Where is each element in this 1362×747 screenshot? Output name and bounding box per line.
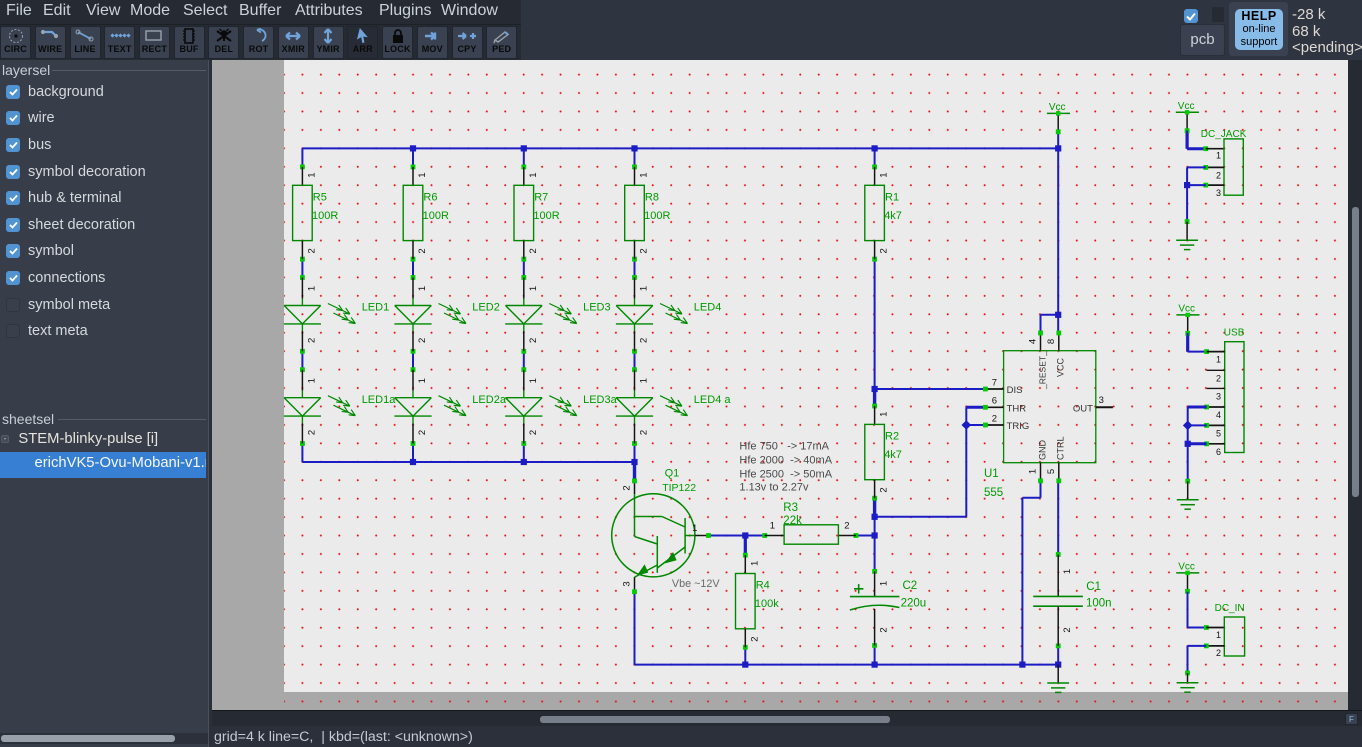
svg-text:3: 3	[621, 581, 632, 586]
svg-text:1: 1	[528, 378, 539, 383]
svg-text:2: 2	[992, 413, 997, 424]
svg-text:R2: R2	[885, 430, 899, 442]
svg-text:DIS: DIS	[1007, 385, 1023, 396]
svg-text:2: 2	[1216, 373, 1221, 383]
svg-text:LED2: LED2	[472, 302, 500, 314]
svg-text:4: 4	[1216, 410, 1221, 420]
svg-text:TRIG: TRIG	[1007, 421, 1030, 432]
svg-text:Q1: Q1	[665, 467, 680, 479]
svg-text:2: 2	[417, 248, 428, 253]
svg-text:1: 1	[879, 581, 890, 586]
svg-text:1: 1	[1216, 151, 1221, 161]
svg-text:Hfe 2000 -> 40mA: Hfe 2000 -> 40mA	[739, 454, 832, 466]
svg-text:4k7: 4k7	[884, 210, 902, 222]
svg-text:4k7: 4k7	[884, 449, 902, 461]
svg-text:7: 7	[992, 377, 997, 388]
svg-text:555: 555	[984, 487, 1003, 499]
svg-text:C2: C2	[903, 580, 918, 592]
svg-text:100n: 100n	[1086, 597, 1112, 609]
svg-text:1: 1	[1216, 355, 1221, 365]
svg-text:Hfe 2500 -> 50mA: Hfe 2500 -> 50mA	[739, 468, 832, 480]
svg-text:2: 2	[528, 430, 539, 435]
svg-text:2: 2	[1062, 627, 1073, 632]
svg-text:100R: 100R	[423, 210, 449, 222]
svg-text:R5: R5	[313, 191, 327, 203]
svg-text:1: 1	[1062, 569, 1073, 574]
svg-text:1: 1	[879, 172, 890, 177]
svg-text:2: 2	[621, 485, 632, 490]
svg-text:1: 1	[749, 561, 760, 566]
svg-text:LED1a: LED1a	[362, 394, 397, 406]
svg-text:3: 3	[1099, 395, 1104, 406]
svg-text:2: 2	[639, 430, 650, 435]
svg-text:CTRL: CTRL	[1056, 436, 1066, 460]
svg-text:2: 2	[1216, 648, 1221, 658]
svg-text:1: 1	[879, 412, 890, 417]
svg-text:LED2a: LED2a	[472, 394, 507, 406]
svg-text:1: 1	[528, 172, 539, 177]
svg-text:GND: GND	[1038, 440, 1048, 461]
svg-text:C1: C1	[1086, 581, 1101, 593]
svg-text:1: 1	[417, 286, 428, 291]
svg-text:U1: U1	[984, 468, 999, 480]
svg-text:2: 2	[639, 248, 650, 253]
svg-text:Hfe 750 -> 17mA: Hfe 750 -> 17mA	[739, 440, 829, 452]
svg-text:5: 5	[1046, 469, 1057, 474]
svg-text:_RESET_: _RESET_	[1038, 351, 1048, 390]
svg-text:2: 2	[879, 248, 890, 253]
svg-text:1: 1	[417, 378, 428, 383]
svg-text:100k: 100k	[755, 598, 779, 610]
svg-text:1.13v to 2.27v: 1.13v to 2.27v	[739, 482, 809, 494]
svg-text:4: 4	[1027, 339, 1038, 344]
svg-text:6: 6	[1216, 447, 1221, 457]
svg-text:R3: R3	[783, 502, 798, 514]
svg-text:LED4: LED4	[694, 302, 722, 314]
svg-text:2: 2	[417, 430, 428, 435]
svg-text:R1: R1	[885, 191, 899, 203]
svg-text:2: 2	[306, 430, 317, 435]
svg-text:2: 2	[528, 248, 539, 253]
svg-text:100R: 100R	[312, 210, 338, 222]
svg-text:DC_IN: DC_IN	[1215, 603, 1245, 614]
svg-text:100R: 100R	[533, 210, 559, 222]
svg-text:R6: R6	[423, 191, 437, 203]
svg-text:USB: USB	[1224, 328, 1245, 339]
svg-text:1: 1	[417, 172, 428, 177]
svg-text:R4: R4	[756, 580, 770, 592]
svg-text:2: 2	[528, 338, 539, 343]
svg-text:1: 1	[1027, 469, 1038, 474]
svg-text:1: 1	[639, 378, 650, 383]
svg-text:R8: R8	[645, 191, 659, 203]
svg-text:THR: THR	[1007, 404, 1027, 415]
svg-text:LED3: LED3	[583, 302, 611, 314]
svg-text:2: 2	[417, 338, 428, 343]
svg-text:1: 1	[639, 286, 650, 291]
svg-text:LED3a: LED3a	[583, 394, 618, 406]
svg-text:1: 1	[639, 172, 650, 177]
svg-text:1: 1	[528, 286, 539, 291]
svg-text:2: 2	[879, 627, 890, 632]
svg-text:6: 6	[992, 396, 997, 407]
svg-text:1: 1	[692, 523, 697, 534]
svg-text:VCC: VCC	[1056, 357, 1066, 377]
svg-text:22k: 22k	[783, 515, 802, 527]
svg-text:3: 3	[1216, 188, 1221, 198]
svg-text:2: 2	[639, 338, 650, 343]
svg-text:2: 2	[306, 248, 317, 253]
svg-text:LED4 a: LED4 a	[694, 394, 732, 406]
svg-text:8: 8	[1046, 339, 1057, 344]
svg-text:3: 3	[1216, 392, 1221, 402]
svg-text:2: 2	[844, 521, 849, 532]
svg-text:2: 2	[306, 338, 317, 343]
svg-text:OUT: OUT	[1073, 404, 1093, 415]
svg-text:R7: R7	[534, 191, 548, 203]
svg-text:2: 2	[879, 487, 890, 492]
svg-text:100R: 100R	[644, 210, 670, 222]
svg-text:1: 1	[1216, 630, 1221, 640]
svg-text:Vbe ~12V: Vbe ~12V	[672, 578, 721, 590]
svg-text:TIP122: TIP122	[662, 482, 696, 494]
svg-text:5: 5	[1216, 429, 1221, 439]
svg-text:2: 2	[1216, 171, 1221, 181]
svg-text:1: 1	[770, 521, 775, 532]
svg-text:DC_JACK: DC_JACK	[1201, 129, 1247, 140]
svg-text:220u: 220u	[901, 597, 927, 609]
svg-text:2: 2	[749, 636, 760, 641]
svg-text:1: 1	[306, 286, 317, 291]
svg-text:1: 1	[306, 378, 317, 383]
svg-text:1: 1	[306, 172, 317, 177]
svg-text:LED1: LED1	[362, 302, 390, 314]
